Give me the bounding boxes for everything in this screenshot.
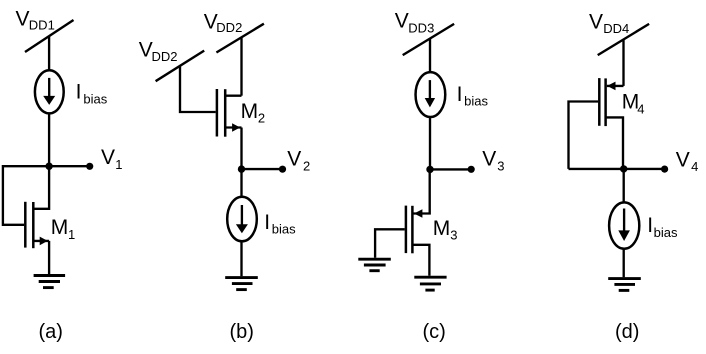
svg-text:V: V — [287, 148, 301, 171]
svg-text:1: 1 — [115, 157, 122, 172]
svg-text:V: V — [16, 7, 30, 30]
svg-text:bias: bias — [83, 91, 107, 106]
svg-text:DD2: DD2 — [152, 49, 178, 64]
svg-text:DD4: DD4 — [603, 21, 629, 36]
svg-text:DD3: DD3 — [408, 20, 434, 35]
svg-text:(c): (c) — [423, 321, 446, 343]
svg-text:I: I — [457, 83, 463, 106]
svg-text:DD1: DD1 — [29, 17, 55, 32]
svg-text:bias: bias — [654, 225, 678, 240]
svg-text:V: V — [676, 149, 690, 172]
svg-text:M: M — [51, 216, 68, 239]
svg-text:V: V — [482, 148, 496, 171]
svg-text:(b): (b) — [230, 321, 254, 343]
svg-text:4: 4 — [691, 159, 698, 174]
svg-text:bias: bias — [272, 222, 296, 237]
svg-text:M: M — [241, 100, 259, 123]
svg-text:I: I — [76, 81, 82, 104]
svg-text:V: V — [101, 146, 115, 169]
svg-text:2: 2 — [303, 158, 310, 173]
svg-text:V: V — [589, 10, 603, 33]
svg-text:3: 3 — [497, 158, 504, 173]
svg-text:1: 1 — [68, 227, 75, 242]
svg-text:bias: bias — [464, 94, 488, 109]
svg-text:3: 3 — [450, 228, 457, 243]
svg-text:2: 2 — [258, 111, 265, 126]
svg-text:DD2: DD2 — [216, 20, 242, 35]
svg-text:I: I — [264, 211, 270, 234]
svg-text:4: 4 — [637, 102, 644, 117]
svg-text:V: V — [395, 10, 409, 33]
svg-text:M: M — [433, 217, 451, 240]
svg-text:(a): (a) — [39, 321, 63, 343]
svg-text:(d): (d) — [615, 321, 639, 343]
svg-text:I: I — [647, 214, 653, 237]
